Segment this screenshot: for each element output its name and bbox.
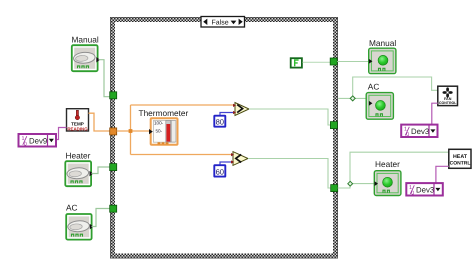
svg-text:Manual: Manual <box>72 34 99 44</box>
boolean indicator AC <box>366 93 393 120</box>
svg-text:AC: AC <box>368 81 380 91</box>
wire junction (AC, diamond) <box>350 96 355 101</box>
wire Dev3 to FAN CONTROL <box>432 103 438 124</box>
svg-text:HEAT: HEAT <box>453 154 468 160</box>
svg-text:READING: READING <box>67 126 88 131</box>
boolean control Heater <box>65 161 93 186</box>
express VI HEAT CONTROL <box>449 149 471 168</box>
svg-text:CONTRL: CONTRL <box>450 160 471 166</box>
wire DAQ output (orange) to tunnel <box>89 113 111 131</box>
wire junction (orange) <box>129 129 133 133</box>
wire Dev3 to HEAT CONTROL <box>436 166 449 183</box>
numeric constant 80 <box>214 116 225 127</box>
svg-text:Dev3: Dev3 <box>411 127 429 136</box>
wire orange trunk inside case <box>117 105 235 155</box>
boolean indicator Heater <box>374 171 401 196</box>
tunnel (heat, right border) <box>331 185 338 192</box>
svg-text:100-: 100- <box>154 120 164 125</box>
svg-text:Dev3: Dev3 <box>416 185 434 194</box>
boolean constant F <box>291 58 302 67</box>
svg-text:Dev9: Dev9 <box>29 136 47 145</box>
svg-text:80: 80 <box>216 117 224 126</box>
boolean control Manual <box>72 45 100 71</box>
tunnel (temperature, orange, left border) <box>110 128 117 135</box>
wire right border to AC junction <box>338 77 438 98</box>
device constant Dev3 (fan) <box>401 125 437 139</box>
case selector label "False" <box>201 17 245 28</box>
wire 80 to greater-than <box>220 113 235 116</box>
svg-text:Heater: Heater <box>66 151 91 161</box>
wire junction (Heater, diamond) <box>348 181 353 186</box>
svg-text:0: 0 <box>411 191 414 197</box>
wire less-than output to right tunnel <box>248 159 331 189</box>
wire Manual control to left tunnel <box>99 60 111 97</box>
svg-text:False: False <box>212 18 229 26</box>
boolean control AC <box>66 214 93 240</box>
wire greater-than output to right tunnel <box>249 109 331 125</box>
wire tunnel to Manual indicator <box>337 61 369 63</box>
svg-text:Heater: Heater <box>375 159 400 169</box>
wire 60 to less-than <box>220 162 233 165</box>
tunnel (fan, right border) <box>330 122 337 129</box>
DAQ assistant TEMP READING <box>67 109 89 132</box>
svg-text:60: 60 <box>216 167 224 176</box>
tunnel (AC, left border) <box>110 205 117 212</box>
wire F to right tunnel <box>303 61 331 63</box>
tunnel (Heater, left border) <box>110 164 117 171</box>
wire AC control to left tunnel <box>92 209 111 227</box>
numeric indicator Thermometer <box>149 118 178 145</box>
express VI FAN CONTROL <box>438 86 458 105</box>
svg-text:Manual: Manual <box>369 38 396 48</box>
tunnel (manual, right border) <box>330 58 337 65</box>
numeric constant 60 <box>214 165 225 176</box>
wire Heater control to left tunnel <box>92 167 111 174</box>
svg-text:0: 0 <box>406 132 409 138</box>
comparison greater-than <box>233 103 249 116</box>
svg-text:0: 0 <box>24 142 27 148</box>
boolean indicator Manual <box>369 48 396 73</box>
svg-text:50-: 50- <box>156 129 163 134</box>
comparison less-than <box>231 152 248 166</box>
svg-text:AC: AC <box>66 202 78 212</box>
svg-text:Thermometer: Thermometer <box>139 108 189 118</box>
device constant Dev9 <box>19 134 57 148</box>
wire right border to Heater junction <box>338 152 449 188</box>
svg-text:CONTROL: CONTROL <box>439 101 457 105</box>
device constant Dev3 (heat) <box>406 183 443 197</box>
tunnel (Manual, left border) <box>110 92 117 99</box>
case structure border <box>110 17 338 259</box>
wire Dev9 to DAQ assistant <box>56 128 67 140</box>
